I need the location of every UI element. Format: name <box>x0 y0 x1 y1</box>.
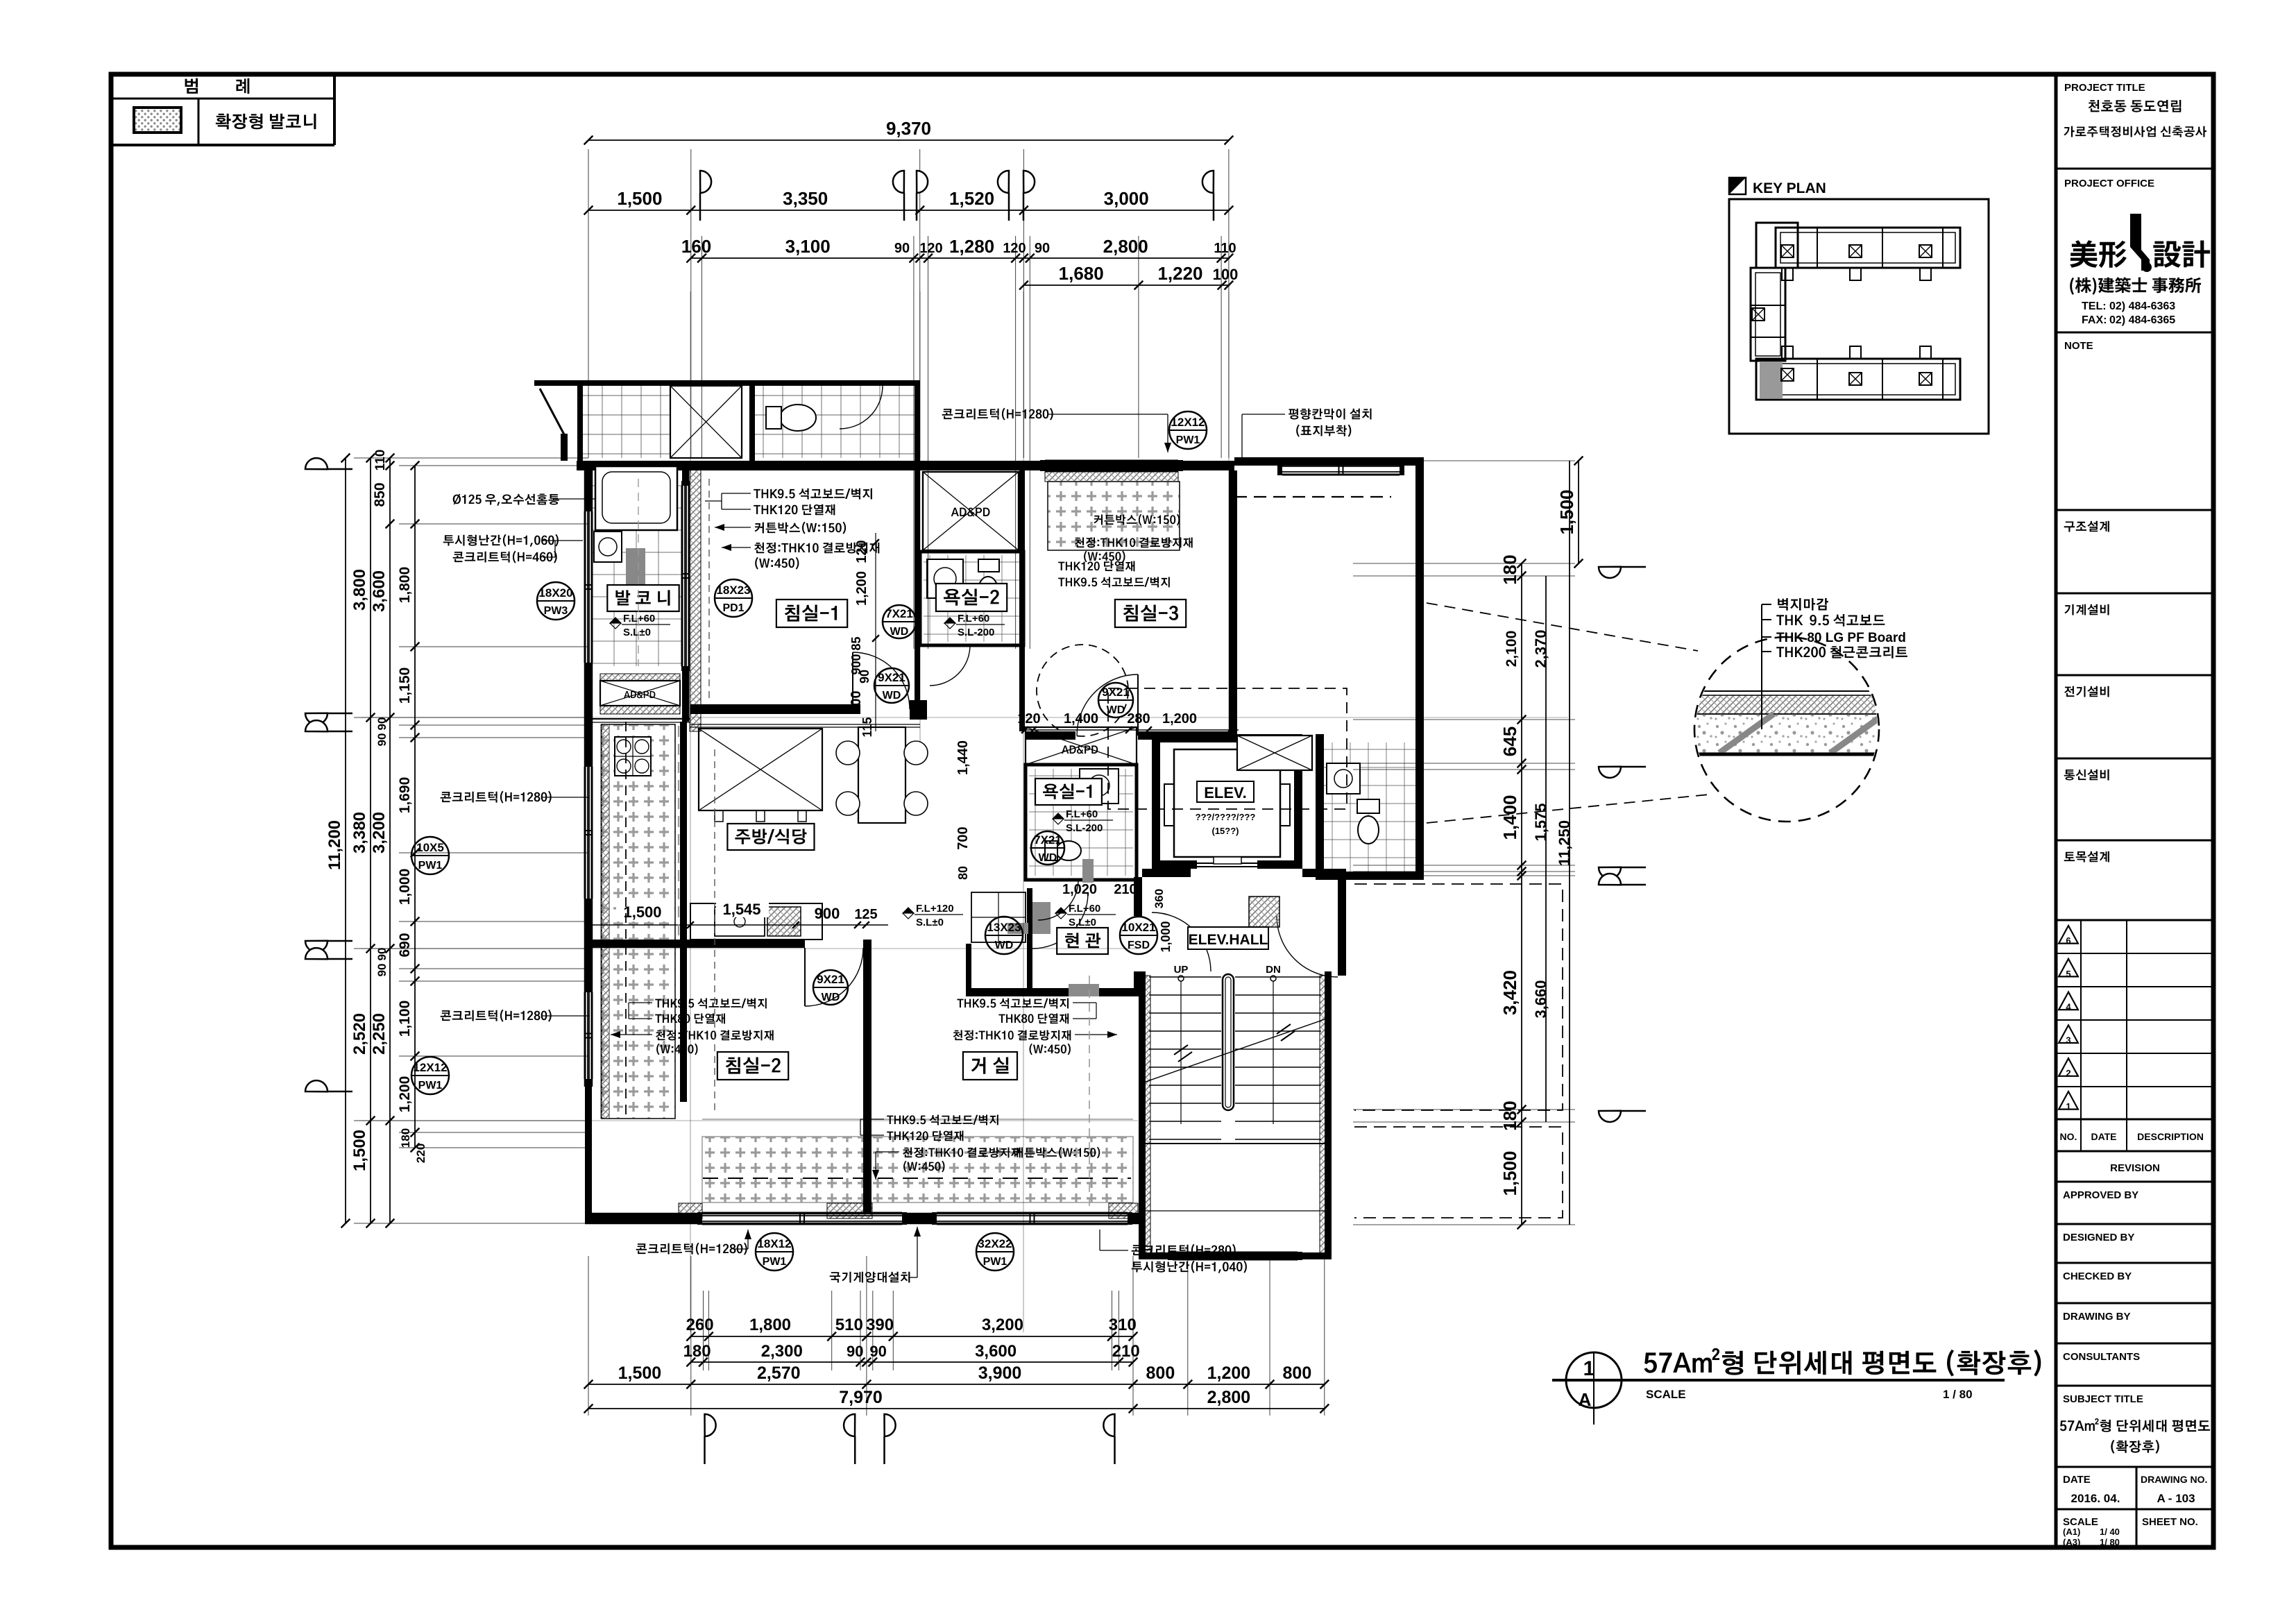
svg-text:F.L+120: F.L+120 <box>916 903 954 915</box>
svg-text:7X21: 7X21 <box>885 607 913 620</box>
svg-text:DRAWING NO.: DRAWING NO. <box>2141 1474 2207 1485</box>
svg-text:???/????/???: ???/????/??? <box>1196 812 1256 822</box>
AD&PD box left of elev <box>1026 727 1137 765</box>
svg-text:PW3: PW3 <box>544 605 568 617</box>
right neighbor toilet <box>1358 816 1379 844</box>
svg-text:WD: WD <box>995 940 1014 951</box>
note left curb2 <box>441 1010 552 1022</box>
svg-text:3,380: 3,380 <box>350 812 369 853</box>
bubble 10X21 FSD <box>1120 917 1157 954</box>
svg-text:PW1: PW1 <box>983 1256 1007 1268</box>
svg-text:690: 690 <box>397 933 413 957</box>
svg-text:3,600: 3,600 <box>975 1342 1017 1361</box>
notes living wall <box>957 999 1069 1009</box>
svg-text:PW1: PW1 <box>418 1080 443 1091</box>
svg-text:120: 120 <box>854 540 869 563</box>
stair treads <box>1149 977 1321 1139</box>
elevator label <box>1197 781 1254 802</box>
F.L marker balcony <box>610 618 621 629</box>
svg-text:A: A <box>1579 1389 1592 1410</box>
svg-text:3,600: 3,600 <box>370 570 389 612</box>
kitchen ceiling line <box>690 724 920 725</box>
svg-text:APPROVED BY: APPROVED BY <box>2063 1189 2138 1201</box>
svg-text:645: 645 <box>1499 726 1520 756</box>
svg-text:2,570: 2,570 <box>757 1363 801 1383</box>
dashed future unit bottom right <box>1354 1127 1563 1218</box>
svg-text:90: 90 <box>375 717 389 731</box>
svg-text:180: 180 <box>1499 1101 1520 1130</box>
entry closet <box>971 892 1026 942</box>
mid wall below bedroom-1 <box>690 704 860 714</box>
right neighbor right wall <box>1415 457 1424 880</box>
svg-text:13X23: 13X23 <box>987 921 1021 934</box>
bath column right wall <box>1019 470 1025 731</box>
svg-text:DRAWING BY: DRAWING BY <box>2063 1311 2131 1323</box>
svg-text:310: 310 <box>1109 1316 1137 1334</box>
svg-text:F.L+60: F.L+60 <box>623 613 655 624</box>
hall right wall <box>1338 877 1346 976</box>
bath-1 door <box>1038 880 1078 920</box>
bubble 18X23 PD1 <box>715 579 752 617</box>
svg-text:PW1: PW1 <box>763 1256 787 1268</box>
legend swatch hatched <box>134 108 181 133</box>
note drain pipe <box>453 494 559 506</box>
left extension lines <box>354 457 588 459</box>
bedroom1 right wall <box>915 470 920 704</box>
bath-2 walls <box>920 552 1023 645</box>
detail leader + notes <box>1761 604 1762 729</box>
balcony bathtub <box>595 466 677 530</box>
svg-text:7,970: 7,970 <box>839 1388 883 1407</box>
elevator door <box>1197 863 1257 864</box>
svg-text:1,545: 1,545 <box>722 901 760 918</box>
svg-text:3,660: 3,660 <box>1532 980 1549 1018</box>
svg-text:390: 390 <box>866 1316 894 1334</box>
svg-text:NO.: NO. <box>2060 1131 2077 1142</box>
svg-text:WD: WD <box>1107 704 1125 716</box>
top dimension row 1500/3350/1520/3000 <box>588 210 1229 211</box>
svg-text:1,220: 1,220 <box>1157 263 1202 284</box>
stair center rail <box>1223 974 1234 1110</box>
neighbor door arc upper <box>840 386 883 429</box>
svg-text:3,350: 3,350 <box>783 188 828 209</box>
elevator shaft walls <box>1152 734 1302 742</box>
left dims outer 11200 <box>345 458 346 1223</box>
svg-text:PD1: PD1 <box>722 602 744 614</box>
insulation patches at bottom wall piers <box>679 1203 702 1218</box>
office logo 美形設計 <box>2070 240 2127 268</box>
svg-text:1,020: 1,020 <box>1062 882 1097 897</box>
svg-text:220: 220 <box>414 1144 427 1163</box>
svg-text:12X12: 12X12 <box>413 1061 447 1074</box>
svg-text:3,900: 3,900 <box>978 1363 1022 1383</box>
room label 욕실-1 <box>1035 779 1102 805</box>
svg-text:1,400: 1,400 <box>1499 794 1520 840</box>
svg-text:1,500: 1,500 <box>623 903 661 921</box>
bubble 12X12 PW1 left <box>411 1057 449 1094</box>
svg-text:FSD: FSD <box>1128 940 1150 951</box>
bath-2 sink <box>927 559 963 598</box>
unit right-top neighbor wall <box>1234 457 1424 466</box>
elevator cab <box>1174 749 1280 857</box>
key plan icon <box>1729 178 1746 194</box>
svg-text:120: 120 <box>1017 711 1040 726</box>
bubble 7X21 WD bath1 <box>1031 831 1064 865</box>
svg-text:3,100: 3,100 <box>785 236 831 257</box>
svg-text:11,200: 11,200 <box>325 820 344 870</box>
bath-2 toilet <box>978 577 998 603</box>
inplan dim kitchen row <box>588 924 888 926</box>
svg-text:120: 120 <box>919 241 942 256</box>
legend title 범 례 <box>185 78 198 94</box>
hall floor sink <box>1249 897 1279 927</box>
svg-text:1,400: 1,400 <box>1064 711 1098 726</box>
svg-text:180: 180 <box>399 1128 412 1148</box>
hatch zone bottom strip <box>702 1137 1133 1203</box>
svg-text:2,250: 2,250 <box>370 1013 389 1055</box>
svg-text:90: 90 <box>858 670 871 683</box>
detail leader dashed lines <box>1427 603 1698 651</box>
F.L marker bath-1 <box>1053 813 1064 824</box>
svg-text:18X20: 18X20 <box>538 586 572 600</box>
svg-text:12X12: 12X12 <box>1171 416 1205 429</box>
svg-text:9X21: 9X21 <box>1102 686 1130 699</box>
top grid flags <box>699 193 701 221</box>
svg-text:1/ 80: 1/ 80 <box>2100 1537 2120 1547</box>
unit bottom wall <box>585 1213 1139 1215</box>
notes bedroom-2 wall <box>655 999 767 1009</box>
svg-text:90: 90 <box>894 241 910 256</box>
svg-text:850: 850 <box>372 482 388 507</box>
svg-text:2,800: 2,800 <box>1103 236 1148 257</box>
svg-text:1,200: 1,200 <box>854 571 869 606</box>
room label 주방/식당 <box>727 824 814 850</box>
svg-text:510: 510 <box>835 1316 863 1334</box>
통신설비 <box>2064 770 2109 781</box>
right neighbor shaft X <box>1237 736 1312 770</box>
svg-text:1/ 40: 1/ 40 <box>2100 1527 2120 1537</box>
svg-text:10X5: 10X5 <box>416 841 444 854</box>
insul band left strip wall <box>601 724 609 1119</box>
svg-text:2,100: 2,100 <box>1504 631 1520 668</box>
kitchen strip right wall <box>680 722 687 941</box>
top dimension row 1680/1220/100 <box>1023 284 1229 286</box>
svg-text:DESIGNED BY: DESIGNED BY <box>2063 1232 2134 1243</box>
svg-text:900: 900 <box>849 690 864 713</box>
svg-text:02) 484-6363: 02) 484-6363 <box>2109 300 2175 312</box>
neighbor toilet <box>780 405 816 431</box>
svg-text:(A1): (A1) <box>2063 1527 2080 1537</box>
room label 발코니 <box>607 585 679 611</box>
top wall window (bedroom-3 area) <box>1045 460 1178 462</box>
svg-text:160: 160 <box>681 236 711 257</box>
hall top wall <box>1142 869 1191 877</box>
dashed partition line neighbor right <box>1234 496 1391 498</box>
balcony right wall <box>682 461 689 486</box>
note partition <box>1289 409 1371 420</box>
balcony washer <box>594 532 622 562</box>
bath-1 tiles <box>1029 769 1133 876</box>
AD&PD label top <box>951 508 990 517</box>
svg-text:9,370: 9,370 <box>886 118 931 139</box>
keyplan gray unit (this unit) <box>1760 362 1783 398</box>
bubble 18X12 PW1 bottom <box>756 1233 793 1271</box>
svg-text:800: 800 <box>1146 1363 1175 1383</box>
svg-text:1,800: 1,800 <box>397 567 413 604</box>
svg-text:SUBJECT TITLE: SUBJECT TITLE <box>2063 1393 2143 1405</box>
svg-text:WD: WD <box>890 626 909 638</box>
svg-text:NOTE: NOTE <box>2064 340 2093 352</box>
svg-text:1,500: 1,500 <box>1499 1150 1520 1196</box>
drawing title circle 1/A <box>1566 1352 1622 1408</box>
svg-text:6: 6 <box>2066 935 2070 946</box>
svg-text:S.L±0: S.L±0 <box>623 627 651 638</box>
svg-text:1,280: 1,280 <box>949 236 994 257</box>
detail circle <box>1694 637 1879 822</box>
room label 현관 <box>1057 928 1108 954</box>
stair walls <box>1139 971 1146 1259</box>
svg-text:9X21: 9X21 <box>817 973 844 986</box>
svg-text:1,500: 1,500 <box>618 1363 662 1383</box>
svg-text:THK 80 LG PF Board: THK 80 LG PF Board <box>1776 631 1906 645</box>
project title korean <box>2089 100 2182 112</box>
legend text 확장형 발코니 <box>216 114 316 130</box>
bath-1 walls <box>1026 765 1137 880</box>
right neighbor walls <box>1316 734 1324 880</box>
svg-text:90: 90 <box>375 964 389 977</box>
svg-text:1,690: 1,690 <box>397 777 413 814</box>
right dims <box>1578 461 1579 563</box>
bubble 9X21 WD bed3 <box>1098 683 1133 717</box>
svg-text:3,200: 3,200 <box>370 812 389 853</box>
svg-text:800: 800 <box>1283 1363 1312 1383</box>
entry gray tiles <box>1032 902 1051 934</box>
svg-text:1,500: 1,500 <box>617 188 662 209</box>
svg-text:DATE: DATE <box>2091 1131 2116 1142</box>
svg-text:WD: WD <box>822 992 840 1003</box>
svg-text:1,520: 1,520 <box>949 188 994 209</box>
neighbor partition walls <box>577 386 583 461</box>
note rail <box>443 534 559 547</box>
left exterior wall <box>584 461 586 1087</box>
bottom dims row4 <box>588 1408 1325 1409</box>
svg-text:SHEET NO.: SHEET NO. <box>2142 1516 2198 1528</box>
notes right of hatch <box>1058 561 1134 572</box>
keyplan elevator boxes <box>1781 245 1794 257</box>
right neighbor tiles <box>1324 742 1415 872</box>
svg-text:2016. 04.: 2016. 04. <box>2071 1492 2120 1505</box>
hall-stair doors <box>1152 912 1211 971</box>
kitchen counter+sink <box>690 903 822 940</box>
svg-text:CHECKED BY: CHECKED BY <box>2063 1271 2132 1282</box>
bath-2 door <box>930 645 970 686</box>
svg-text:1,100: 1,100 <box>397 1001 413 1037</box>
svg-text:180: 180 <box>683 1342 711 1361</box>
svg-text:PW1: PW1 <box>1176 434 1200 446</box>
svg-text:TEL:: TEL: <box>2082 300 2107 312</box>
keyplan building outline <box>1751 223 1960 400</box>
bath-1 sink <box>1080 769 1119 804</box>
note concrete curb top <box>942 408 1053 420</box>
svg-text:1,800: 1,800 <box>749 1316 791 1334</box>
right neighbor window band <box>1282 463 1400 465</box>
svg-text:2,300: 2,300 <box>761 1342 803 1361</box>
stair break marks <box>1143 1019 1327 1082</box>
svg-text:F.L+60: F.L+60 <box>958 613 989 624</box>
left dims col3 <box>389 458 391 1223</box>
room label 욕실-2 <box>936 584 1007 611</box>
left wall bottom segment <box>585 1087 592 1223</box>
landing line <box>1146 1143 1325 1144</box>
room label ELEV.HALL <box>1188 927 1268 949</box>
svg-text:DESCRIPTION: DESCRIPTION <box>2137 1131 2204 1142</box>
subject title korean <box>2060 1418 2210 1432</box>
right extension lines <box>1353 460 1575 461</box>
top dimension row detail <box>691 257 1229 259</box>
svg-text:2,800: 2,800 <box>1207 1388 1251 1407</box>
left dims col2 <box>370 458 371 1223</box>
balcony-kitchen wall line <box>585 718 690 720</box>
svg-text:1,000: 1,000 <box>397 869 413 906</box>
svg-text:90: 90 <box>869 1343 886 1360</box>
top dimension row 9370 <box>588 139 1229 141</box>
svg-text:9X21: 9X21 <box>878 671 905 684</box>
svg-text:(15??): (15??) <box>1212 826 1239 836</box>
drawing title text <box>1644 1348 2041 1377</box>
svg-text:(A3): (A3) <box>2063 1537 2080 1547</box>
stair window bottom <box>1173 1252 1298 1254</box>
kitchen-bedroom2 wall <box>588 940 805 948</box>
svg-text:3: 3 <box>2066 1035 2070 1045</box>
svg-text:2: 2 <box>2066 1068 2070 1078</box>
notes bedroom-3 ext <box>1094 514 1180 526</box>
legend box <box>111 144 334 146</box>
detail source dashed circle <box>1037 645 1128 736</box>
svg-text:260: 260 <box>686 1316 714 1334</box>
svg-text:32X22: 32X22 <box>978 1237 1012 1250</box>
neighbor top wall <box>534 380 920 386</box>
dashed boundary top right <box>1108 688 1347 809</box>
neighbor open door leaf diagonal <box>540 389 565 436</box>
svg-text:1,200: 1,200 <box>397 1076 413 1113</box>
balcony gray box <box>626 548 645 590</box>
svg-text:KEY PLAN: KEY PLAN <box>1753 180 1826 196</box>
insulation band stair right wall <box>1320 976 1327 1256</box>
svg-text:DATE: DATE <box>2063 1474 2091 1486</box>
svg-text:1,200: 1,200 <box>1162 711 1197 726</box>
note left curb1 <box>441 791 552 804</box>
centerlines <box>690 291 691 1332</box>
svg-text:7X21: 7X21 <box>1034 833 1062 847</box>
svg-text:1: 1 <box>1583 1357 1595 1380</box>
svg-text:100: 100 <box>1213 266 1239 283</box>
svg-text:1,680: 1,680 <box>1059 263 1104 284</box>
svg-text:S.L-200: S.L-200 <box>1066 822 1103 834</box>
svg-text:110: 110 <box>373 450 388 471</box>
balcony AD&PD <box>600 681 680 706</box>
svg-text:1,000: 1,000 <box>1159 921 1173 952</box>
bubble 12X12 PW1 top <box>1169 411 1207 449</box>
room label 침실-1 <box>776 600 847 627</box>
bubble 10X5 PW1 left <box>411 837 449 874</box>
bubble 9X21 WD corridor <box>874 668 909 703</box>
bottom dims row2 <box>691 1361 1133 1363</box>
bedroom-1 door <box>853 652 910 709</box>
bedroom3 bottom wall <box>1025 731 1075 740</box>
insulation band top right <box>1045 472 1178 482</box>
insulation band stair left wall <box>1143 976 1150 1256</box>
svg-text:80: 80 <box>956 866 970 880</box>
svg-text:4: 4 <box>2066 1002 2071 1012</box>
svg-text:210: 210 <box>1114 882 1137 897</box>
top extension lines <box>588 149 589 458</box>
bubble 9X21 WD bed2 <box>813 970 848 1005</box>
토목설계 <box>2064 851 2109 863</box>
svg-text:S.L±0: S.L±0 <box>916 917 944 928</box>
revision table <box>2080 920 2082 1151</box>
bath-2 tiles <box>924 555 1020 642</box>
svg-text:11,250: 11,250 <box>1556 820 1573 866</box>
entry door arc <box>1032 893 1088 949</box>
svg-text:90: 90 <box>847 1343 863 1360</box>
svg-text:18X23: 18X23 <box>716 584 750 597</box>
svg-text:F.L+60: F.L+60 <box>1066 808 1098 820</box>
svg-text:700: 700 <box>955 826 971 849</box>
gray dashed curbs <box>625 722 627 1119</box>
note curb460 <box>453 551 557 563</box>
bottom dims row1 <box>691 1336 1133 1337</box>
svg-text:90: 90 <box>1035 241 1050 256</box>
svg-text:900: 900 <box>815 905 840 922</box>
svg-text:110: 110 <box>1214 241 1236 256</box>
neighbor shaft X <box>670 386 742 458</box>
left dims col4 <box>414 466 416 1148</box>
svg-text:WD: WD <box>883 690 901 702</box>
bottom notes <box>636 1243 747 1255</box>
bubble 18X20 PW3 <box>537 582 575 620</box>
svg-text:ELEV.HALL: ELEV.HALL <box>1189 932 1268 948</box>
svg-text:900 85: 900 85 <box>849 636 863 674</box>
svg-text:3,200: 3,200 <box>982 1316 1023 1334</box>
dashed future unit right side <box>1354 884 1563 1110</box>
(株)建築士 事務所 <box>2070 277 2201 294</box>
room label 침실-3 <box>1115 600 1186 627</box>
svg-text:1,500: 1,500 <box>1556 489 1577 534</box>
svg-text:1,150: 1,150 <box>397 668 413 704</box>
AD&PD box top (bath-2 shaft) <box>923 472 1019 550</box>
svg-text:90: 90 <box>375 948 389 961</box>
svg-text:1: 1 <box>2066 1101 2070 1112</box>
svg-text:S.L-200: S.L-200 <box>958 627 994 638</box>
right neighbor sink <box>1327 763 1360 794</box>
hatch zone left strip (kitchen ext balcony) <box>602 724 675 1119</box>
svg-text:5: 5 <box>2066 969 2070 979</box>
svg-text:PROJECT TITLE: PROJECT TITLE <box>2064 82 2145 94</box>
svg-text:1,500: 1,500 <box>350 1130 369 1171</box>
svg-text:F.L+60: F.L+60 <box>1069 903 1100 915</box>
bath-1 toilet <box>1056 841 1081 860</box>
titleblock sidebar divider <box>2055 74 2058 1547</box>
neighbor bath tiles <box>755 386 915 458</box>
bubble 32X22 PW1 bottom <box>976 1233 1014 1271</box>
bottom dims row3 <box>588 1384 1325 1385</box>
전기설비 <box>2064 686 2109 697</box>
svg-text:1,575: 1,575 <box>1532 803 1549 841</box>
kitchen stove <box>615 737 651 776</box>
svg-text:90: 90 <box>375 733 389 747</box>
F.L marker kitchen <box>903 908 914 919</box>
unit right wall upper <box>1229 470 1237 734</box>
